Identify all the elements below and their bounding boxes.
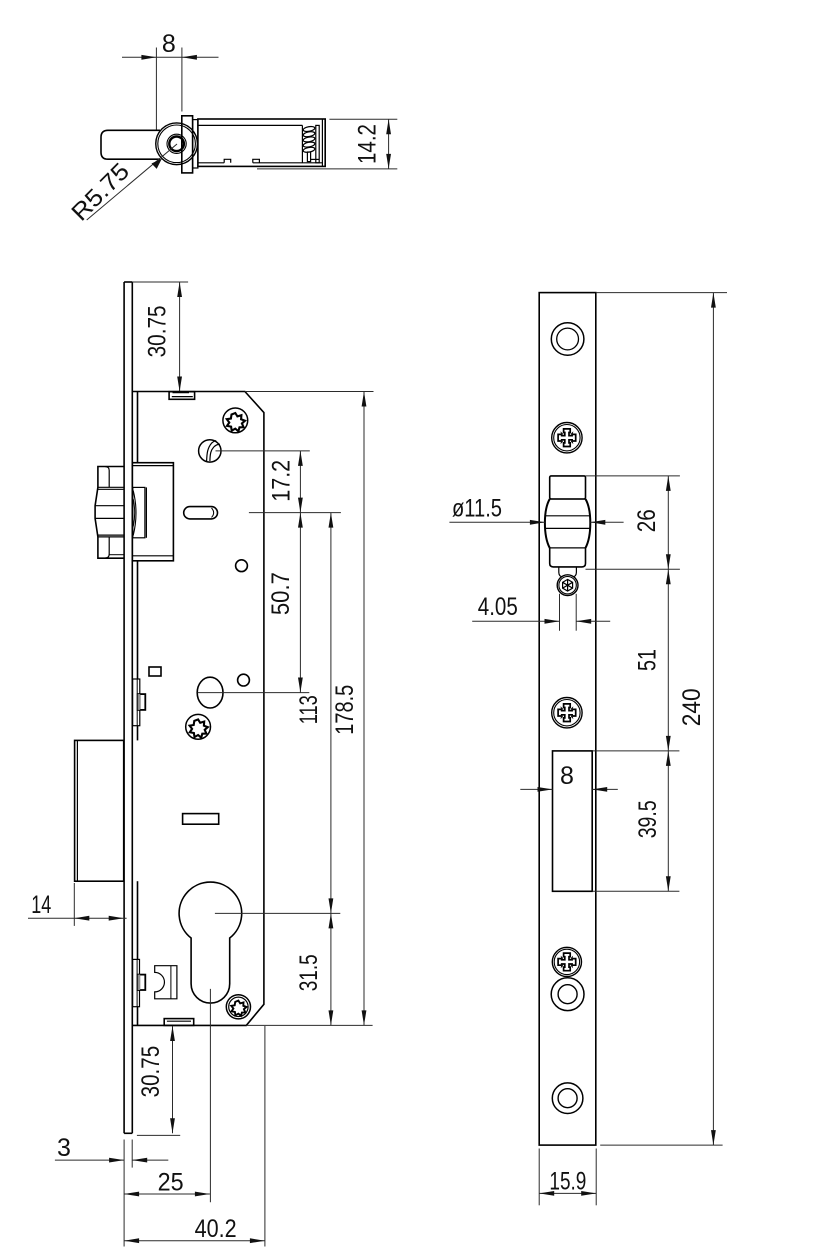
svg-text:51: 51 <box>634 649 662 671</box>
dimension 8 (top view latch width) <box>122 30 219 131</box>
svg-text:3: 3 <box>57 1134 71 1162</box>
faceplate plate <box>539 293 596 1146</box>
latch head tab (pill) <box>101 130 160 159</box>
spring coil <box>303 126 315 153</box>
svg-text:14.2: 14.2 <box>353 124 381 164</box>
bracket lower (faceplate clip) <box>133 959 146 1006</box>
top tab on case <box>169 392 195 400</box>
dimension 17.2 <box>216 451 341 513</box>
small circle upper <box>236 560 248 572</box>
spring rod <box>307 152 310 162</box>
svg-text:ø11.5: ø11.5 <box>452 495 502 523</box>
latch guide box <box>132 463 173 561</box>
dimension 15.9 <box>539 1149 596 1206</box>
svg-text:113: 113 <box>295 695 323 724</box>
small square hole <box>149 667 161 676</box>
svg-text:14: 14 <box>31 891 51 919</box>
latch tail window <box>133 487 147 537</box>
torx screw top <box>223 408 248 433</box>
bracket upper (faceplate clip) <box>133 679 146 726</box>
dimension o11.5 <box>449 495 623 525</box>
dimension 4.05 <box>472 593 610 631</box>
dimension 30.75 (bottom) <box>137 1026 180 1135</box>
svg-text:240: 240 <box>678 688 706 726</box>
deadbolt slot <box>553 751 593 891</box>
dimension 50.7 <box>267 513 303 693</box>
svg-text:8: 8 <box>560 762 574 790</box>
torx screw middle <box>186 714 211 739</box>
svg-text:31.5: 31.5 <box>295 954 323 991</box>
small circle lower <box>238 674 250 686</box>
dimension 178.5 <box>331 392 367 1026</box>
housing inner right edge <box>321 119 323 166</box>
svg-text:8: 8 <box>162 30 176 58</box>
dimension 14.2 <box>329 119 397 169</box>
phillips screw B <box>552 698 582 728</box>
lock case outline <box>132 392 264 1026</box>
latch pivot circles <box>156 123 198 165</box>
svg-text:4.05: 4.05 <box>478 593 518 621</box>
follower oval <box>197 677 309 708</box>
dimension 113 <box>295 513 333 914</box>
dimension 31.5 <box>295 913 333 1025</box>
svg-text:25: 25 <box>158 1168 184 1196</box>
leader R5.75 <box>66 144 177 226</box>
svg-text:30.75: 30.75 <box>137 1046 165 1098</box>
spring guide left <box>301 125 303 162</box>
deadbolt (main view) <box>75 740 124 881</box>
case top extension line <box>245 391 374 393</box>
faceplate strip (edge view) <box>124 282 132 1133</box>
case bottom extension line <box>246 1024 372 1026</box>
housing inner top line <box>198 124 303 126</box>
phillips screw A <box>552 423 582 453</box>
dimension 26 <box>586 476 680 569</box>
dimension 14 <box>28 883 127 926</box>
latch lower box <box>550 548 586 567</box>
svg-text:50.7: 50.7 <box>267 572 295 615</box>
latch neck <box>559 567 577 577</box>
rail tab left <box>224 159 231 163</box>
latch bolt head (main view) <box>95 467 124 559</box>
dimension 39.5 <box>592 751 679 891</box>
svg-text:15.9: 15.9 <box>549 1168 586 1196</box>
rail tab right <box>253 159 260 163</box>
torx screw bottom <box>226 995 250 1019</box>
C-clip piece <box>155 966 177 999</box>
housing inner bottom rails <box>198 162 224 164</box>
spring guide right <box>316 125 319 162</box>
lever hole rectangle <box>183 814 219 825</box>
top hole <box>551 323 584 356</box>
latch housing (top view) <box>198 119 325 166</box>
svg-text:40.2: 40.2 <box>195 1215 237 1243</box>
dimension 30.75 (top) <box>132 282 188 392</box>
dimension 40.2 <box>124 1026 265 1247</box>
phillips screw C <box>552 947 581 976</box>
bottom hole <box>552 1083 583 1114</box>
inner plate bar <box>193 120 198 168</box>
faceplate bar (top view, edge-on) <box>182 116 193 173</box>
ring hole <box>551 978 584 1011</box>
svg-text:30.75: 30.75 <box>143 305 171 357</box>
dimension 25 <box>124 1168 210 1196</box>
torx screw D (anti-friction pin) <box>557 575 578 596</box>
svg-text:178.5: 178.5 <box>331 685 359 735</box>
pill slot <box>184 507 218 519</box>
latch bolt (right view) top box <box>550 476 586 499</box>
svg-text:39.5: 39.5 <box>634 800 662 838</box>
rod step line <box>311 158 319 160</box>
bottom tab on case <box>164 1019 194 1026</box>
dimension 3 <box>55 1134 168 1247</box>
dimension 51 <box>634 569 671 751</box>
svg-text:17.2: 17.2 <box>267 460 295 502</box>
svg-text:26: 26 <box>633 509 661 532</box>
slotted screw <box>199 440 221 462</box>
dimension 8 (right view) <box>520 762 618 792</box>
housing bottom thin line / ext of 14.2 <box>257 168 397 170</box>
euro cylinder hole <box>179 882 340 1202</box>
dimension 240 <box>596 293 727 1146</box>
latch barrel sides <box>545 499 590 548</box>
